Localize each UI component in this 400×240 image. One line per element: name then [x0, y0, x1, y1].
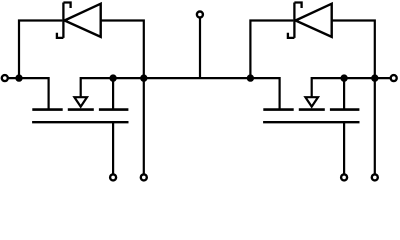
transistor Q2 gate plate [263, 121, 359, 123]
wire source-sense lead of Q2 down to terminal 7 [374, 78, 376, 174]
wire anode of D1 down to source node of Q1 [101, 21, 144, 79]
transistor Q1 body arrow (substrate, hollow triangle) [74, 97, 87, 106]
node C (source-sense junction dot of Q1) [140, 74, 147, 81]
terminal 5 (source sense of Q1) [141, 174, 147, 180]
wire source contact stub of Q1 [112, 78, 114, 109]
wire left rail to corner and drain contact stub of Q1 [8, 78, 49, 109]
wire riser from node D up to diode D2 cathode [250, 21, 293, 79]
terminal 1 (left, drain of Q1) [2, 75, 8, 81]
node E (source junction dot of Q2) [340, 74, 347, 81]
transistor Q2 body arrow (substrate, hollow triangle) [305, 97, 318, 106]
diode D2 triangle (anode, pointing left) [296, 4, 332, 37]
transistor Q1 channel segments [32, 108, 128, 111]
wire centre riser from terminal 2 down to phase rail [199, 18, 201, 78]
wire source-sense lead of Q1 down to terminal 5 [143, 78, 145, 174]
node D (junction dot, riser to diode D2) [247, 74, 254, 81]
wire gate lead of Q1 down to terminal 4 [112, 122, 114, 174]
wire anode of D2 down to source node of Q2 [332, 21, 375, 79]
terminal 7 (source sense of Q2) [372, 174, 378, 180]
node F (source-sense junction dot of Q2) [371, 74, 378, 81]
transistor Q2 channel segments [263, 108, 359, 111]
wire riser from node A up to diode D1 cathode [19, 21, 62, 79]
wire source rail of Q1 through to drain contact stub of Q2 [81, 78, 280, 109]
terminal 3 (right, source of Q2) [391, 75, 397, 81]
wire source contact stub of Q2 [343, 78, 345, 109]
diode D2 (Schottky) cathode bar with hooks [288, 3, 302, 38]
terminal 2 (top centre, phase output) [197, 12, 203, 18]
diode D1 (Schottky) cathode bar with hooks [57, 3, 71, 38]
terminal 4 (gate of Q1) [110, 174, 116, 180]
wire gate lead of Q2 down to terminal 6 [343, 122, 345, 174]
terminal 6 (gate of Q2) [341, 174, 347, 180]
diode D1 triangle (anode, pointing left) [65, 4, 101, 37]
node B (source junction dot of Q1) [109, 74, 116, 81]
node A (junction dot at left terminal) [15, 74, 22, 81]
transistor Q1 gate plate [32, 121, 128, 123]
wire source rail of Q2 to terminal 3 [312, 78, 391, 97]
